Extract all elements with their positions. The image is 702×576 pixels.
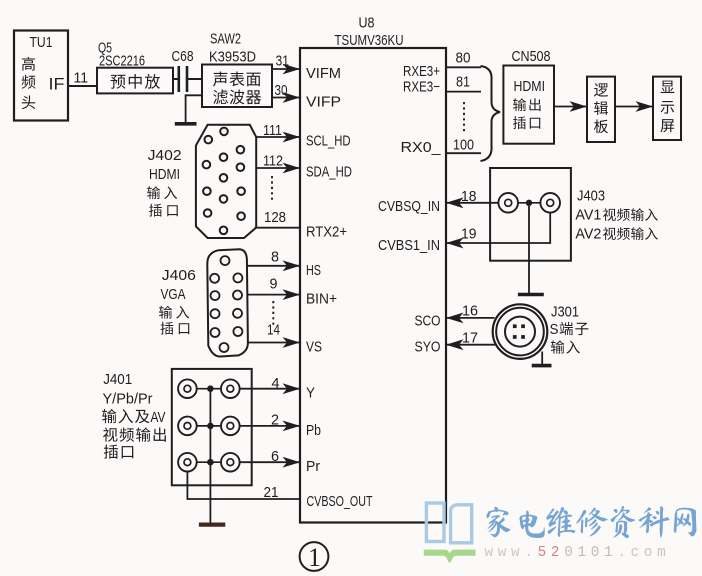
logic board text 板	[594, 119, 608, 133]
svg-text:J402: J402	[148, 147, 182, 164]
svg-text:Y/Pb/Pr: Y/Pb/Pr	[103, 391, 153, 408]
svg-text:CVBS1_IN: CVBS1_IN	[378, 237, 440, 254]
logic board box	[587, 77, 615, 142]
filter text 声表面	[213, 72, 261, 87]
svg-text:SCL_HD: SCL_HD	[306, 132, 351, 149]
arrowhead pin 30	[283, 92, 301, 103]
capacitor C68	[179, 66, 187, 92]
wire Q5 to C68	[173, 78, 179, 80]
logic board text 逻	[594, 83, 608, 96]
arrowhead pin 31	[283, 64, 301, 75]
wire pin 30	[272, 97, 300, 99]
svg-text:K3953D: K3953D	[209, 49, 256, 66]
tuner text 头	[22, 96, 35, 110]
svg-text:30: 30	[275, 82, 288, 99]
arrowhead to logic board	[570, 101, 588, 112]
brace grouping RXE wires	[481, 66, 501, 161]
svg-text:AV2: AV2	[575, 226, 601, 243]
svg-text:TSUMV36KU: TSUMV36KU	[335, 32, 404, 49]
svg-text:BIN+: BIN+	[306, 291, 337, 308]
svg-text:www.520101.com: www.520101.com	[485, 545, 671, 561]
svg-text:17: 17	[462, 330, 478, 347]
SAW filter box	[202, 65, 272, 108]
arrowhead pin 6	[283, 457, 301, 468]
connector J403 text 视频输入 1	[603, 208, 658, 221]
wire pin 128	[255, 227, 300, 229]
arrowhead pin 111	[283, 132, 301, 143]
svg-text:6: 6	[271, 448, 279, 465]
arrowhead pin 14	[283, 337, 301, 348]
ground at J403	[518, 293, 544, 296]
connector J402 pin holes	[203, 128, 245, 235]
svg-text:J301: J301	[551, 304, 579, 321]
wire J401 common bus	[209, 389, 211, 523]
svg-text:19: 19	[461, 226, 477, 243]
IC U8 TSUMV36KU body	[300, 48, 446, 523]
svg-text:C68: C68	[172, 48, 194, 65]
svg-text:RXE3−: RXE3−	[403, 79, 440, 96]
svg-text:Pb: Pb	[306, 422, 321, 439]
svg-text:111: 111	[263, 122, 282, 139]
svg-text:AV: AV	[151, 409, 166, 426]
arrowhead pin 8	[283, 260, 301, 271]
tuner text 频	[22, 75, 36, 89]
wire C68 to SAW filter	[187, 78, 202, 80]
wire pin 81	[446, 91, 481, 93]
arrowhead pin 2	[283, 421, 301, 432]
connector J402 HDMI body	[196, 125, 256, 238]
watermark book icon green base	[424, 550, 476, 563]
svg-text:VIFM: VIFM	[306, 65, 341, 82]
svg-text:SCO: SCO	[415, 313, 441, 330]
connector J406 text 插口	[161, 322, 190, 335]
connector J402 text 输入	[147, 186, 177, 199]
ground at J301	[532, 364, 552, 368]
CN508 text 插口	[513, 116, 540, 129]
svg-text:U8: U8	[359, 15, 375, 32]
connector J401 RCA jacks	[178, 379, 240, 471]
connector J406 text 输入	[159, 306, 189, 319]
connector J301 text 端子	[560, 322, 589, 335]
wire pin 112	[256, 167, 300, 169]
svg-text:VGA: VGA	[161, 286, 186, 303]
svg-text:HDMI: HDMI	[514, 78, 546, 95]
dotted continuation J402 pins	[271, 176, 273, 203]
wire pin 17 SYO	[446, 344, 495, 346]
svg-text:112: 112	[263, 153, 283, 170]
svg-text:4: 4	[272, 375, 280, 392]
display text 屏	[660, 119, 674, 132]
filter text 滤波器	[213, 90, 261, 105]
connector J401 text 插口	[104, 444, 134, 458]
wire TU1 to Q5	[68, 85, 97, 87]
svg-text:128: 128	[264, 209, 286, 226]
display box	[653, 77, 681, 140]
connector J406 pin holes	[210, 256, 242, 352]
wire pin 80	[446, 66, 481, 68]
display text 显	[661, 81, 675, 93]
connector J403 box	[490, 168, 571, 261]
arrowhead to display	[636, 101, 654, 112]
connector J403 RCA jacks	[498, 193, 560, 213]
svg-text:CVBSO_OUT: CVBSO_OUT	[307, 493, 373, 510]
display text 示	[661, 101, 675, 114]
amplifier Q5 box	[97, 68, 173, 94]
svg-text:J403: J403	[577, 188, 605, 205]
connector J406 VGA body	[207, 249, 248, 356]
wire pin 100	[446, 152, 481, 154]
wire pin 21 CVBSO_OUT	[187, 472, 300, 500]
svg-text:SYO: SYO	[415, 339, 441, 356]
svg-text:AV1: AV1	[575, 207, 601, 224]
wire J403 ground	[528, 206, 530, 294]
svg-text:80: 80	[456, 50, 471, 67]
wire pin 31	[272, 68, 300, 70]
svg-text:16: 16	[462, 303, 478, 320]
svg-text:1: 1	[308, 543, 321, 572]
svg-text:14: 14	[267, 322, 280, 339]
svg-text:Y: Y	[306, 385, 315, 402]
wire J301 ground	[541, 352, 543, 365]
CN508 text 输出	[513, 98, 540, 111]
svg-text:Pr: Pr	[306, 458, 320, 475]
arrowhead pin 16	[446, 313, 464, 324]
svg-text:11: 11	[74, 70, 89, 87]
connector J301 text 输入	[551, 340, 580, 353]
svg-text:VIFP: VIFP	[306, 94, 341, 111]
svg-text:CVBSQ_IN: CVBSQ_IN	[378, 198, 440, 215]
watermark book icon blue pages	[426, 503, 471, 543]
svg-text:HS: HS	[306, 262, 321, 279]
svg-text:RX0_: RX0_	[401, 139, 442, 156]
svg-text:J406: J406	[162, 267, 196, 284]
svg-text:IF: IF	[49, 75, 65, 94]
wire pin 4 Y	[240, 388, 300, 390]
tuner text 高频头	[22, 57, 35, 71]
svg-text:SAW2: SAW2	[210, 31, 241, 48]
wire logic board to display	[615, 106, 653, 108]
wire pin 19 CVBS1_IN	[446, 213, 550, 243]
amplifier text 预中放	[111, 74, 160, 89]
wire pin 14 VS	[248, 342, 300, 344]
tuner TU1 box	[14, 31, 68, 121]
arrowhead pin 17	[446, 339, 464, 350]
connector J401 box	[172, 369, 252, 485]
dotted continuation J406 pins	[272, 301, 274, 325]
svg-text:RTX2+: RTX2+	[306, 224, 347, 241]
page number circled 1	[300, 542, 329, 571]
connector J403 text 视频输入 2	[603, 227, 658, 240]
arrowhead pin 9	[283, 289, 301, 300]
wire pin 8	[247, 265, 300, 267]
wire pin 2 Pb	[240, 425, 300, 427]
svg-text:18: 18	[461, 188, 477, 205]
arrowhead pin 112	[283, 163, 301, 174]
watermark text 家电维修资料网	[486, 506, 696, 539]
wire pin 6 Pr	[240, 461, 300, 463]
svg-text:CN508: CN508	[512, 48, 551, 65]
connector J401 text 输入及AV	[102, 409, 149, 423]
arrowhead pin 18	[446, 197, 464, 208]
svg-text:TU1: TU1	[30, 34, 53, 51]
wire pin 18 CVBSQ_IN	[446, 202, 498, 204]
wire pin 16 SCO	[446, 317, 495, 319]
svg-text:2: 2	[271, 412, 279, 429]
svg-text:SDA_HD: SDA_HD	[306, 163, 352, 180]
connector J401 text 视频输出	[103, 427, 166, 441]
svg-text:31: 31	[276, 53, 290, 70]
svg-text:S: S	[550, 321, 559, 338]
svg-text:100: 100	[453, 137, 474, 154]
svg-text:81: 81	[456, 74, 470, 91]
arrowhead pin 4	[283, 383, 301, 394]
arrowhead pin 19	[446, 238, 464, 249]
connector J402 text 插口	[149, 204, 178, 217]
svg-text:VS: VS	[306, 339, 322, 356]
ground at SAW filter	[175, 122, 197, 126]
ground wire at SAW filter	[186, 95, 202, 122]
svg-text:8: 8	[271, 249, 279, 266]
svg-text:9: 9	[270, 276, 278, 293]
svg-text:J401: J401	[103, 371, 132, 388]
wire CN508 to logic board	[554, 106, 587, 108]
dotted continuation RXE pins	[463, 102, 465, 132]
logic board text 辑	[594, 101, 608, 115]
wire pin 111	[256, 136, 300, 138]
ground at J401	[199, 522, 225, 526]
svg-text:RXE3+: RXE3+	[403, 63, 440, 80]
svg-text:HDMI: HDMI	[149, 166, 180, 183]
connector J301 S-video body	[493, 304, 548, 359]
wire pin 9	[248, 294, 300, 296]
connector CN508 box	[503, 66, 554, 144]
svg-text:21: 21	[264, 484, 279, 501]
